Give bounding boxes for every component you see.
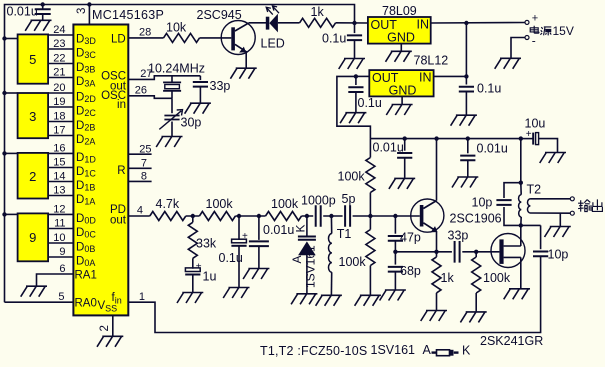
junction: bus tap box 5 <box>2 36 6 40</box>
svg-text:1SV161: 1SV161 <box>304 245 318 288</box>
svg-text:-: - <box>532 34 536 48</box>
resistor 100k (bias upper) <box>366 158 375 193</box>
junction: rail 0.01u no2 <box>466 136 470 140</box>
wire: pin 21 <box>48 77 73 79</box>
wire: crystal bottom stub <box>171 91 173 99</box>
capacitor 10p (feedback) <box>533 252 548 257</box>
svg-text:RA1: RA1 <box>75 270 97 282</box>
svg-text:2SC1906: 2SC1906 <box>450 212 502 226</box>
wire: 0.01u decoupling stub <box>42 5 44 10</box>
inductor T2 secondary <box>528 199 531 213</box>
svg-text:K: K <box>462 344 471 358</box>
wire: Q3 source lead <box>504 256 521 258</box>
wire: pin 28 LD to R 10k <box>128 37 163 39</box>
wire: feedback line to fin pin 1 <box>128 256 540 332</box>
ground (VSS) <box>97 336 123 347</box>
wire: 0.01u mid to ground <box>258 246 260 268</box>
switch box 9 <box>18 213 48 261</box>
svg-text:13: 13 <box>53 185 65 197</box>
terminal: -15V <box>525 36 529 40</box>
svg-text:+: + <box>196 262 202 273</box>
wire: 33p to Q3 gate <box>462 251 499 253</box>
wire: 0.1u to ground <box>354 40 356 58</box>
svg-text:RA0: RA0 <box>75 298 97 310</box>
capacitor 0.1u (15V) <box>459 87 474 92</box>
wire: left address bus vertical <box>5 5 355 303</box>
transistor Q2 2SC1906 circle <box>411 199 444 232</box>
junction: 33k tap <box>191 214 195 218</box>
resistor 1k (emitter) <box>432 257 441 293</box>
svg-text:68p: 68p <box>400 264 421 278</box>
wire: pin 3 supply into IC top <box>88 5 90 25</box>
junction: 15V rail mid <box>464 74 468 78</box>
svg-text:D2B: D2B <box>76 120 95 133</box>
svg-text:D1B: D1B <box>76 180 95 193</box>
wire: 78L09 IN to +15V terminal <box>431 22 525 25</box>
svg-text:25: 25 <box>139 143 151 155</box>
wire: to varactor cathode <box>306 216 308 237</box>
svg-text:+: + <box>526 129 532 140</box>
wire: pin 18 <box>48 121 73 123</box>
wire: T2 top to coil <box>520 183 522 195</box>
wire: pin 23 <box>48 48 73 50</box>
junction: varactor tap <box>305 214 309 218</box>
wire: Q1 collector diagonal <box>235 23 249 31</box>
svg-text:3: 3 <box>29 109 36 124</box>
svg-text:10k: 10k <box>166 21 187 35</box>
wire: rail to 0.01u no2 <box>467 139 469 154</box>
wire: pin 2 VSS to ground <box>112 315 114 335</box>
wire: 100k bias to base node <box>369 193 371 217</box>
svg-text:0.1u: 0.1u <box>219 251 243 265</box>
wire: pin 24 <box>48 34 73 36</box>
IC U1 MC145163P body <box>73 25 128 316</box>
wire: down to 10p <box>540 225 542 249</box>
svg-text:15: 15 <box>53 157 65 169</box>
capacitor 68p <box>388 267 403 272</box>
wire: to T1 <box>330 216 332 234</box>
transistor Q3 2SK241GR circle <box>491 234 525 268</box>
svg-text:0.1u: 0.1u <box>477 82 501 96</box>
resistor 10k <box>164 33 200 42</box>
resistor 100k (loop filter 2) <box>266 212 302 221</box>
wire: PD out pin 4 line <box>128 215 420 217</box>
wire: 68p to ground <box>394 272 396 290</box>
capacitor 30p trimmer <box>164 116 179 120</box>
capacitor 1000p <box>316 205 321 227</box>
svg-text:10p: 10p <box>472 196 493 210</box>
junction: 9V node <box>352 21 356 25</box>
svg-text:T2: T2 <box>527 183 542 197</box>
transistor Q3 gate/channel bar <box>499 239 503 264</box>
wire: Q3 drain lead <box>504 245 521 247</box>
svg-text:0.01u: 0.01u <box>7 5 38 19</box>
wire: Q3 source to ground <box>520 257 522 288</box>
svg-text:5p: 5p <box>342 192 356 206</box>
resistor 1k (LED) <box>300 18 336 27</box>
junction: bus tap box 9 <box>2 212 6 216</box>
junction: T2 top <box>519 181 523 185</box>
wire: T2 bottom to 10p series <box>521 224 541 226</box>
junction: gate 100k tap <box>474 250 478 254</box>
ground (15V 0.1u) <box>451 115 477 126</box>
wire: T2 coil to bottom node <box>520 217 522 225</box>
svg-text:D1C: D1C <box>76 166 96 179</box>
svg-text:5: 5 <box>58 291 64 303</box>
wire: to 30p trimmer <box>171 98 173 113</box>
wire: pin 10 <box>48 242 73 244</box>
wire: bus tap to box 9 <box>5 213 18 215</box>
svg-text:24: 24 <box>53 24 65 36</box>
ground (Q3 source) <box>504 289 530 300</box>
svg-text:D1A: D1A <box>76 194 95 207</box>
capacitor 0.01u (loop) <box>249 241 269 246</box>
resistor 100k (gate) <box>472 257 481 293</box>
capacitor 33p (coupling) <box>455 241 460 263</box>
wire: Q1 emitter to ground <box>245 51 247 68</box>
ground (78L12) <box>386 105 412 116</box>
wire: pin 6 RA1 to ground <box>37 274 74 286</box>
wire: 47p to 68p <box>394 241 396 265</box>
wire: Q2 collector to rail <box>436 139 438 201</box>
svg-text:10u: 10u <box>525 117 546 131</box>
svg-text:1u: 1u <box>203 270 217 284</box>
junction: Q2 emitter node <box>434 250 438 254</box>
svg-text:33p: 33p <box>448 229 469 243</box>
svg-text:A: A <box>423 343 432 357</box>
svg-text:27: 27 <box>140 68 152 80</box>
wire: base node to 47p <box>394 216 396 234</box>
ground (output) <box>545 227 571 238</box>
wire: 33k to 1u <box>192 258 194 268</box>
svg-text:4.7k: 4.7k <box>156 197 180 211</box>
wire: varactor anode to ground <box>306 255 308 293</box>
ground (0.01u no2) <box>452 177 478 188</box>
crystal X1 10.24MHz <box>163 82 181 90</box>
wire: - terminal to ground <box>511 38 525 58</box>
svg-text:10.24MHz: 10.24MHz <box>148 62 205 76</box>
svg-text:D3A: D3A <box>76 76 95 89</box>
wire: pin 16 <box>48 152 73 154</box>
capacitor 0.01u (rail no2) <box>460 156 475 161</box>
svg-text:7: 7 <box>141 157 147 169</box>
svg-text:5: 5 <box>29 52 36 67</box>
wire: Q2 emitter down <box>436 232 438 252</box>
wire: Q2 emitter diagonal with arrow <box>423 223 434 230</box>
ground (100k T1) <box>355 295 381 306</box>
regulator U2 78L09 body <box>368 17 431 44</box>
wire: bus tap to box 3 <box>5 92 18 94</box>
svg-text:LD: LD <box>111 34 126 46</box>
svg-text:T1: T1 <box>337 227 352 241</box>
wire: Q2 collector diagonal <box>423 201 436 209</box>
junction: supply tap pin3 <box>87 2 91 6</box>
junction: 0.1u tap <box>237 214 241 218</box>
svg-text:10: 10 <box>53 232 65 244</box>
ground (top-left 0.01u) <box>25 20 51 31</box>
ground (0.1u mid) <box>223 288 249 299</box>
svg-text:11: 11 <box>54 218 65 230</box>
label 输出 <box>578 199 602 211</box>
wire: bus tap to box 2 <box>5 152 18 154</box>
resistor 100k (loop filter 1) <box>199 212 235 221</box>
switch box 5 <box>18 34 48 83</box>
wire: 0.1u mid to ground <box>238 246 240 287</box>
svg-text:2SC945: 2SC945 <box>197 8 242 22</box>
wire: to 0.1u mid <box>238 216 240 240</box>
svg-text:100k: 100k <box>271 197 299 211</box>
ground (12V 0.1u) <box>340 113 366 124</box>
wire: pin 19 <box>48 106 73 108</box>
wire: pin 5 RA0 to bus <box>5 301 74 303</box>
svg-text:28: 28 <box>139 27 151 39</box>
wire: Q3 drain up to T2 <box>520 225 522 246</box>
wire: 12V RF rail <box>370 139 520 183</box>
svg-text:+: + <box>532 12 538 24</box>
junction: T1 tap <box>329 214 333 218</box>
svg-text:19: 19 <box>53 96 65 108</box>
svg-text:100k: 100k <box>483 271 511 285</box>
resistor 33k <box>188 222 197 258</box>
wire: pin 13 <box>48 195 73 197</box>
svg-text:2SK241GR: 2SK241GR <box>480 334 543 348</box>
varactor D2 1SV161 <box>298 237 316 240</box>
svg-text:2: 2 <box>99 325 111 331</box>
wire: Q1 emitter diagonal with arrow <box>235 44 246 51</box>
capacitor 0.01u (top-left decoupling) <box>35 9 51 14</box>
capacitor 47p <box>388 236 403 241</box>
ground (varactor) <box>291 294 317 305</box>
svg-text:2: 2 <box>29 169 36 184</box>
capacitor 1u electrolytic <box>185 268 200 272</box>
svg-text:18: 18 <box>53 111 65 123</box>
resistor 100k (T1 parallel) <box>366 230 375 266</box>
junction: rail 10u corner <box>519 136 523 140</box>
junction: bus tap box 3 <box>2 91 6 95</box>
svg-text:IN: IN <box>419 71 432 85</box>
resistor 4.7k <box>150 212 186 221</box>
svg-text:in: in <box>117 99 126 111</box>
junction: 47p tap <box>393 214 397 218</box>
ground (33p) <box>185 103 211 114</box>
regulator U3 78L12 body <box>369 70 433 96</box>
svg-text:D1D: D1D <box>76 152 96 165</box>
svg-text:D0C: D0C <box>76 227 96 240</box>
svg-text:9: 9 <box>59 246 65 258</box>
LED D1: cathode bar and triangle <box>266 17 270 30</box>
capacitor 5p <box>345 205 350 227</box>
svg-text:D3B: D3B <box>76 62 95 75</box>
wire: to 33k <box>192 216 194 222</box>
svg-text:0.1u: 0.1u <box>322 31 346 45</box>
svg-text:IN: IN <box>417 18 430 32</box>
ground (T1) <box>316 295 342 306</box>
wire: 78L12 OUT <box>356 75 369 77</box>
wire: 78L12 GND <box>401 96 403 104</box>
wire: 10k to Q1 base <box>200 37 232 39</box>
svg-text:20: 20 <box>53 82 65 94</box>
junction: 0.01u tap <box>41 2 45 6</box>
svg-text:33k: 33k <box>196 237 217 251</box>
switch box 3 <box>18 93 48 138</box>
wire: pin 15 <box>48 167 73 169</box>
wire: 0.1u to ground <box>355 92 357 112</box>
wire: output ground stub <box>559 213 561 226</box>
wire: 0.01u no1 to ground <box>404 158 406 178</box>
label 电源15V <box>530 26 551 36</box>
svg-text:D0B: D0B <box>76 242 95 255</box>
svg-text:10p: 10p <box>548 248 569 262</box>
svg-text:A: A <box>290 255 304 263</box>
ground (100k gate) <box>460 312 486 323</box>
junction: 15V rail top <box>464 21 468 25</box>
wire: T2 secondary top to output <box>530 198 570 200</box>
svg-text:0.01u: 0.01u <box>263 223 294 237</box>
wire: rail to 100k bias <box>369 139 371 158</box>
wire: pin 17 <box>48 135 73 137</box>
svg-text:0.1u: 0.1u <box>358 96 382 110</box>
wire: 9V node to 0.1u <box>354 23 356 33</box>
wire: pin 12 <box>48 213 73 215</box>
inductor T2 primary <box>519 195 522 217</box>
wire: LED anode to R 1k <box>278 22 300 24</box>
svg-text:D2A: D2A <box>76 134 95 147</box>
junction: 100k divider tap <box>368 214 372 218</box>
capacitor 0.01u (rail no1) <box>397 153 412 158</box>
terminal: output bottom <box>570 211 574 215</box>
junction: 12V node <box>354 74 358 78</box>
wire: rail to 10u <box>521 138 533 140</box>
ground (1u) <box>177 293 203 304</box>
wire: gate node to 100k <box>475 252 477 257</box>
wire: 100k gate to ground <box>475 293 477 311</box>
svg-text:23: 23 <box>53 38 65 50</box>
wire: pin 11 <box>48 228 73 230</box>
wire: pin 20 <box>48 92 73 94</box>
capacitor 10u electrolytic <box>532 133 534 145</box>
wire: 10u to ground <box>539 139 558 152</box>
svg-text:14: 14 <box>53 171 65 183</box>
svg-text:LED: LED <box>261 36 285 50</box>
LED arrows <box>266 6 279 15</box>
ground (-15V) <box>495 58 521 69</box>
svg-text:6: 6 <box>59 263 65 275</box>
ground (68p) <box>380 290 406 301</box>
svg-text:1: 1 <box>139 291 145 303</box>
svg-text:D2C: D2C <box>76 106 96 119</box>
legend diode package symbol <box>432 351 437 353</box>
svg-text:0.01u: 0.01u <box>477 142 508 156</box>
ground (10u) <box>540 153 566 164</box>
svg-text:+: + <box>242 231 248 242</box>
transistor Q1 base bar <box>231 27 235 50</box>
junction: T2 bottom <box>519 223 523 227</box>
wire: T1 to ground <box>330 272 332 295</box>
terminal: output top <box>570 197 574 201</box>
svg-text:1k: 1k <box>311 5 325 19</box>
junction: 0.01u tap <box>257 214 261 218</box>
wire: pin 8 stub <box>128 180 151 182</box>
junction: rail 0.01u no1 <box>403 136 407 140</box>
capacitor 0.1u (12V bypass) <box>348 87 363 92</box>
wire: 78L12 IN to 15V rail <box>434 75 467 77</box>
wire: 12V feed to RF rail <box>337 76 371 138</box>
ground (0.01u mid) <box>243 269 269 280</box>
ground (1k) <box>421 311 447 322</box>
transistor Q2 base bar <box>420 205 424 227</box>
svg-text:MC145163P: MC145163P <box>92 8 164 22</box>
svg-text:33p: 33p <box>210 79 231 93</box>
svg-text:0.01u: 0.01u <box>373 141 404 155</box>
wire: 100k to ground <box>369 266 371 295</box>
capacitor 10p plates (across T2) <box>496 200 511 205</box>
svg-text:D3D: D3D <box>76 34 96 47</box>
wire: 33p stub <box>199 76 201 80</box>
svg-text:GND: GND <box>387 31 415 45</box>
wire: 1k to 9V node / 78L09 OUT <box>336 22 368 24</box>
wire: 78L09 GND <box>400 44 402 51</box>
wire: 15V vertical <box>465 23 467 85</box>
wire: 1k to ground <box>436 293 438 310</box>
junction: bus tap box 2 <box>2 151 6 155</box>
ground (Q1 emitter) <box>230 68 256 79</box>
wire: emitter node to 1k <box>436 252 438 257</box>
capacitor 10p (across T2) <box>504 183 521 226</box>
capacitor 33p (crystal) <box>193 82 208 87</box>
wire: to 0.01u mid <box>258 216 260 240</box>
inductor T1 <box>328 234 331 273</box>
ground (RA1) <box>21 286 47 297</box>
svg-text:D0D: D0D <box>76 213 96 226</box>
wire: rail to 0.01u no1 <box>404 139 406 151</box>
wire: pin 25 stub <box>128 153 151 155</box>
svg-text:D0A: D0A <box>76 256 95 269</box>
svg-text:16: 16 <box>53 143 65 155</box>
wire: 1u to ground <box>192 275 194 293</box>
svg-text:47p: 47p <box>400 231 421 245</box>
wire: 0.01u no2 to ground <box>467 160 469 176</box>
svg-text:12: 12 <box>53 204 65 216</box>
svg-text:out: out <box>110 215 127 227</box>
svg-text:15V: 15V <box>553 24 574 38</box>
svg-text:1k: 1k <box>441 271 455 285</box>
svg-text:D3C: D3C <box>76 48 96 61</box>
wire: to 100k (T1 parallel) <box>369 216 371 230</box>
svg-text:8: 8 <box>141 171 147 183</box>
junction: emitter divider <box>393 250 397 254</box>
wire: 12V to 0.1u <box>355 76 357 85</box>
svg-text:K: K <box>293 224 307 232</box>
wire: Q1 collector to LED cathode <box>249 22 266 24</box>
wire: pin 9 <box>48 256 73 258</box>
svg-text:21: 21 <box>53 67 65 79</box>
svg-text:17: 17 <box>53 125 65 137</box>
capacitor 0.1u (9V bypass) <box>347 35 362 40</box>
svg-text:22: 22 <box>53 53 65 65</box>
wire: pin 27 OSC out <box>128 76 200 80</box>
wire: bus tap to box 5 <box>5 38 18 40</box>
ground (30p) <box>156 137 182 148</box>
svg-text:78L09: 78L09 <box>382 4 417 18</box>
svg-text:3: 3 <box>76 8 88 14</box>
wire: crystal top stub <box>171 76 173 83</box>
wire: pin 22 <box>48 63 73 65</box>
svg-text:26: 26 <box>135 85 147 97</box>
svg-text:GND: GND <box>389 84 417 98</box>
svg-text:100k: 100k <box>338 170 366 184</box>
svg-text:D2D: D2D <box>76 92 96 105</box>
capacitor 0.1u electrolytic (loop) <box>232 239 247 243</box>
